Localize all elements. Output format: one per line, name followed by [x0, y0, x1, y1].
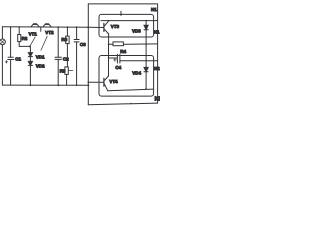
- svg-text:R4: R4: [120, 49, 126, 54]
- svg-text:N1: N1: [151, 7, 157, 12]
- svg-text:VD2: VD2: [36, 63, 45, 68]
- wire R2 branch: [18, 27, 20, 35]
- transistor VT4: [88, 81, 103, 83]
- transistor VT1: [31, 24, 39, 27]
- wire outer top and right: [88, 4, 157, 103]
- wire riser: [87, 4, 89, 105]
- wire outer bottom: [88, 103, 157, 105]
- svg-text:VD3: VD3: [132, 29, 141, 34]
- R4 rail: [109, 43, 158, 45]
- wire VT1 emitter stub: [40, 27, 42, 31]
- svg-text:VT2: VT2: [45, 30, 54, 35]
- junction dots: [10, 14, 147, 104]
- svg-text:R3: R3: [61, 37, 67, 42]
- IC block N1 box: [99, 14, 154, 37]
- capacitor C4: [117, 54, 120, 63]
- transistor VT3: [103, 23, 105, 31]
- svg-text:C1: C1: [15, 57, 21, 62]
- wire VD1 to VD2: [29, 57, 31, 62]
- VT2 base lead: [41, 36, 47, 50]
- wire C2 branch: [57, 27, 59, 85]
- wire left edge upper: [1, 27, 3, 39]
- svg-text:C4: C4: [115, 65, 121, 70]
- wire left edge lower: [1, 45, 3, 85]
- wire C3 branch: [76, 27, 78, 85]
- capacitor C1: [8, 57, 14, 59]
- R5 side tick: [69, 70, 73, 72]
- svg-text:VT4: VT4: [109, 79, 118, 84]
- wire VD2 to bottom rail: [29, 65, 31, 85]
- box1 top stub: [120, 11, 122, 15]
- svg-text:VT3: VT3: [111, 24, 120, 29]
- svg-text:N2: N2: [154, 66, 160, 71]
- transistor VT2: [43, 24, 51, 27]
- IC block N2 box: [99, 56, 154, 97]
- svg-text:VT1: VT1: [29, 31, 38, 36]
- resistor R2: [18, 35, 21, 42]
- lamp HL: [0, 39, 5, 45]
- svg-text:C2: C2: [63, 57, 69, 62]
- wire R5 to bottom rail: [66, 74, 68, 85]
- svg-text:R5: R5: [60, 68, 66, 73]
- diode VD3: [145, 21, 147, 26]
- svg-text:VD4: VD4: [132, 70, 141, 75]
- svg-text:VD1: VD1: [36, 55, 45, 60]
- wire C1 branch: [10, 27, 12, 85]
- box2 bottom rail: [108, 89, 154, 91]
- svg-text:R2: R2: [22, 36, 28, 41]
- wire R3 to R5: [66, 44, 68, 67]
- inter-stage vertical: [108, 44, 110, 76]
- svg-text:N1: N1: [154, 30, 160, 35]
- resistor R4: [113, 42, 123, 46]
- svg-text:C3: C3: [80, 42, 86, 47]
- diode VD2: [28, 61, 32, 65]
- capacitor C2: [55, 57, 61, 59]
- capacitor C3: [74, 40, 79, 42]
- wire R2 to node: [19, 42, 30, 47]
- wire bottom rail left: [2, 84, 88, 86]
- box1 internal rail: [101, 20, 157, 22]
- wire node to VD1: [29, 46, 31, 52]
- VT1 base lead: [30, 37, 35, 46]
- diode VD1: [28, 53, 32, 57]
- resistor R3: [66, 36, 69, 44]
- wire R3 branch: [66, 27, 68, 36]
- diode VD4: [145, 61, 147, 68]
- svg-text:N2: N2: [155, 97, 160, 103]
- resistor R5: [65, 67, 68, 75]
- box2 internal rail with C4 jog: [109, 57, 118, 59]
- wire top rail: [2, 26, 103, 29]
